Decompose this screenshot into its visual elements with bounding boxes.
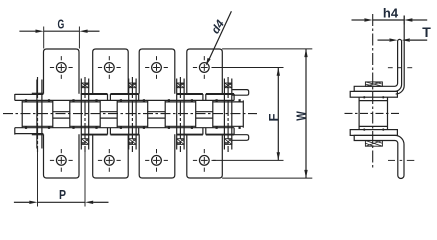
link band inner edge top [15, 99, 234, 101]
svg-text:W: W [293, 111, 308, 121]
band cap bottom [107, 128, 109, 135]
bolt hole A1 top [56, 63, 66, 73]
dimension F extension lines [213, 67, 283, 69]
pin P4 lower rivet hatch [177, 139, 184, 145]
band cap bottom [109, 128, 111, 135]
roller R1 [21, 100, 23, 127]
attachment base bar top edge [81, 93, 108, 95]
dimension F line [277, 68, 279, 161]
bolt hole A2 bottom [104, 156, 114, 166]
pin centerline joint 2 [84, 77, 86, 152]
end link bar top [232, 90, 249, 96]
bolt hole A3 bottom [152, 156, 162, 166]
side pin upper rivet hatch [365, 82, 382, 86]
dimension h4 arrows [364, 18, 372, 21]
attachment base bar bottom edge [177, 134, 203, 136]
lower attachment L-plate [354, 135, 404, 178]
svg-text:G: G [58, 17, 65, 32]
pin P2 lower rivet hatch [81, 139, 88, 145]
bushing knot [143, 99, 145, 101]
chain horizontal centerline [3, 113, 257, 115]
dimension F arrows [277, 68, 280, 76]
bolt hole A4 bottom [199, 156, 209, 166]
bushing knot [25, 99, 27, 101]
side link plate top edge [350, 91, 397, 97]
side link plate bottom edge [350, 130, 397, 136]
roller R2 [69, 100, 71, 127]
attachment plate A3 bottom [139, 134, 175, 178]
end link bar bottom [232, 135, 249, 141]
bushing between rollers [100, 111, 117, 113]
dimension W arrows [304, 49, 307, 57]
pin P4 left edge [176, 79, 178, 150]
lower attachment hole centerline [388, 159, 395, 161]
band cap bottom [14, 128, 16, 135]
pin P1 upper tick [32, 92, 44, 94]
bolt hole A2 top [104, 63, 114, 73]
band cap top [109, 94, 111, 100]
roller R3 [116, 100, 118, 127]
attachment plate A4 bottom [187, 134, 223, 178]
band cap top [233, 94, 235, 100]
link band inner edge bottom [15, 127, 234, 129]
pin centerline joint 3 [131, 77, 133, 152]
leader line d4 [209, 11, 231, 59]
band cap bottom [205, 128, 207, 135]
upper attachment hole centerline [388, 67, 393, 69]
svg-text:h4: h4 [383, 6, 399, 21]
roller R5 [212, 100, 214, 127]
pin P2 upper rivet hatch [81, 83, 88, 88]
band cap top [202, 94, 204, 100]
pin P3 right edge [135, 79, 137, 150]
band cap bottom [138, 128, 140, 135]
attachment base bar top edge [177, 93, 203, 95]
dimension T line [378, 39, 390, 41]
leader arrow d4 [206, 58, 211, 66]
attachment base bar top edge [206, 93, 234, 95]
dimension G arrows [36, 30, 44, 33]
bushing between rollers [196, 111, 213, 113]
band cap bottom [233, 128, 235, 135]
svg-text:T: T [422, 24, 431, 40]
band cap bottom [202, 128, 204, 135]
attachment base bar bottom edge [206, 134, 234, 136]
attachment base bar bottom edge [81, 134, 108, 136]
dimension h4 line [352, 19, 365, 21]
attachment plate A3 top [139, 49, 175, 94]
side pin lower rivet hatch [365, 141, 382, 147]
pin P5 lower rivet hatch [224, 139, 231, 145]
bolt hole A1 bottom [56, 156, 66, 166]
bushing knot [216, 99, 218, 101]
roller R4 [164, 100, 166, 127]
pin P5 left edge [223, 79, 225, 150]
dimension P extension lines [37, 152, 39, 207]
dimension P arrows [29, 201, 37, 204]
dimension W extension lines [222, 48, 312, 50]
attachment base bar bottom edge [110, 134, 138, 136]
dimension T arrows [389, 38, 397, 41]
side roller block [358, 97, 360, 129]
svg-text:F: F [266, 113, 281, 121]
pin P3 left edge [128, 79, 130, 150]
attachment plate A2 top [93, 49, 129, 94]
band cap top [107, 94, 109, 100]
bolt hole A4 top [199, 63, 209, 73]
dimension P line [14, 201, 30, 203]
attachment base bar top edge [110, 93, 138, 95]
band cap top [138, 94, 140, 100]
attachment plate A1 bottom [44, 134, 80, 178]
pin P2 right edge [88, 79, 90, 150]
bushing knot [239, 99, 241, 101]
bolt hole A3 top [152, 63, 162, 73]
dimension G line [19, 30, 35, 32]
attachment plate A1 top [44, 49, 80, 94]
side bushing ticks [363, 96, 365, 98]
pin P3 lower rivet hatch [129, 139, 136, 145]
bushing knot [191, 99, 193, 101]
side view horizontal centerline [345, 112, 401, 114]
pin P2 left edge [80, 79, 82, 150]
bushing knot [95, 99, 97, 101]
pin centerline joint 5 [227, 77, 229, 152]
band cap top [205, 94, 207, 100]
upper rear plate edge [396, 16, 405, 95]
bushing knot [72, 99, 74, 101]
bushing between rollers [148, 111, 166, 113]
pin P1 left edge [36, 80, 38, 149]
pin centerline joint 4 [179, 77, 181, 152]
pin P4 upper rivet hatch [177, 83, 184, 88]
pin centerline joint 1 [37, 77, 39, 152]
link bar B1 bottom edge [15, 133, 44, 135]
pin P3 upper rivet hatch [129, 83, 136, 88]
dimension W line [305, 49, 307, 178]
pin P1 lower tick [32, 134, 44, 136]
band cap top [14, 94, 16, 100]
bushing between rollers [53, 111, 70, 113]
bushing knot [168, 99, 170, 101]
link bar B1 top edge [15, 93, 44, 95]
bushing knot [120, 99, 122, 101]
pin P1 right edge [41, 80, 43, 149]
attachment plate A2 bottom [93, 134, 129, 178]
dimension h4 extension line [403, 16, 405, 25]
svg-text:P: P [59, 187, 66, 202]
dimension G extension lines [43, 27, 45, 49]
pin P4 right edge [183, 79, 185, 150]
attachment plate A4 top [187, 49, 223, 94]
side view vertical centerline [372, 14, 374, 170]
pin P5 upper rivet hatch [224, 83, 231, 88]
upper attachment L-plate [354, 39, 401, 91]
bushing knot [48, 99, 50, 101]
pin P5 right edge [231, 79, 233, 150]
